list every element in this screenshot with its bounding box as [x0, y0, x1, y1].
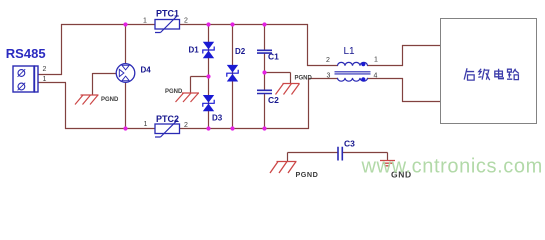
wire D4 left lead to PGND — [93, 73, 117, 95]
lu — [507, 69, 519, 80]
wire D1 D3 column — [208, 24, 210, 129]
svg-text:C1: C1 — [268, 52, 279, 62]
svg-text:PTC1: PTC1 — [156, 9, 179, 19]
svg-text:PGND: PGND — [295, 76, 313, 82]
ji — [478, 69, 489, 80]
svg-text:D4: D4 — [141, 66, 152, 75]
wire D4 bottom drop — [125, 83, 127, 130]
wire connector pin2 horizontal — [38, 74, 62, 76]
wire top-right drop to L1 — [307, 24, 309, 66]
resistor PTC1 — [155, 16, 180, 33]
capacitor C3 — [338, 147, 342, 161]
wire jog down right of L1 — [402, 78, 404, 102]
wire jog up right of L1 — [402, 45, 404, 66]
wire top rail — [61, 24, 308, 26]
dian — [495, 69, 504, 79]
resistor PTC2 — [155, 120, 180, 137]
svg-text:2: 2 — [184, 17, 188, 24]
svg-text:1: 1 — [374, 57, 378, 64]
wire pin2 riser to top rail — [61, 24, 63, 75]
TVS diode D2 — [227, 65, 238, 82]
svg-text:D2: D2 — [235, 47, 246, 56]
wire stub into box bottom — [402, 101, 441, 103]
wire stub into box top — [402, 45, 441, 47]
wire C1 C2 column — [264, 24, 266, 129]
svg-text:1: 1 — [143, 18, 147, 25]
svg-text:3: 3 — [327, 73, 331, 80]
svg-text:L1: L1 — [344, 46, 356, 57]
svg-text:2: 2 — [43, 66, 47, 73]
label 后级电路 — [464, 68, 519, 80]
ground PGND at C3 — [270, 162, 297, 174]
svg-text:PGND: PGND — [296, 170, 319, 179]
svg-text:1: 1 — [43, 76, 47, 83]
TVS diode D1 — [203, 42, 214, 58]
wire C3 right segment to GND — [343, 153, 388, 162]
ground PGND at D1 D3 — [176, 93, 200, 102]
svg-text:PGND: PGND — [101, 97, 119, 103]
wire C1-C2 midpoint tap to PGND — [265, 73, 291, 85]
TVS diode D3 — [203, 95, 214, 111]
svg-text:2: 2 — [184, 122, 188, 129]
common mode choke L1 — [335, 62, 371, 81]
capacitor C2 — [257, 90, 272, 93]
wire C3 left segment — [288, 153, 339, 163]
svg-text:C2: C2 — [268, 95, 279, 105]
wire bottom rail — [65, 128, 309, 130]
wire L1 pin2 lead — [307, 65, 338, 67]
hou — [464, 68, 474, 80]
ground GND at C3 — [380, 161, 395, 166]
node junction dots — [123, 22, 266, 130]
svg-text:4: 4 — [374, 73, 378, 80]
wire L1 pin1 lead — [367, 65, 403, 67]
subsequent stage circuit box — [441, 19, 537, 124]
svg-text:www.cntronics.com: www.cntronics.com — [361, 156, 543, 178]
wire pin1 drop to bottom rail — [65, 83, 67, 130]
svg-text:C3: C3 — [344, 139, 355, 149]
wire L1 pin4 lead — [367, 78, 403, 80]
svg-text:RS485: RS485 — [6, 46, 46, 61]
wire D2 column — [232, 24, 234, 129]
svg-text:2: 2 — [326, 57, 330, 64]
connector J1 RS485 body — [13, 66, 38, 92]
capacitor C1 — [257, 50, 272, 53]
svg-text:D3: D3 — [212, 114, 223, 123]
gas discharge tube D4 — [116, 64, 135, 83]
svg-text:1: 1 — [144, 121, 148, 128]
wire connector pin1 horizontal — [38, 82, 66, 84]
svg-text:D1: D1 — [189, 46, 200, 55]
wire D4 top riser — [125, 24, 127, 64]
ground PGND at C1 C2 — [276, 84, 300, 95]
wire D1-D3 midpoint tap to PGND — [191, 77, 209, 94]
svg-text:PGND: PGND — [165, 89, 183, 95]
wire L1 pin3 lead — [308, 78, 338, 80]
wire bottom-right rise to L1 — [308, 78, 310, 129]
svg-text:PTC2: PTC2 — [156, 114, 179, 124]
ground PGND at D4 — [75, 95, 99, 105]
